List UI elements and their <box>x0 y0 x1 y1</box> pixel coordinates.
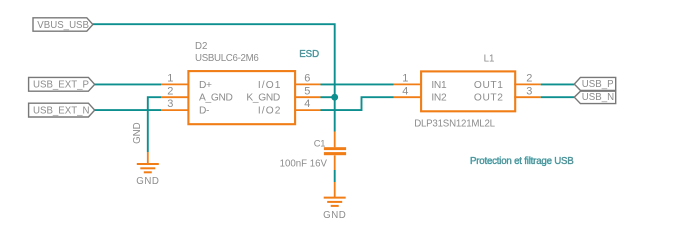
svg-text:C1: C1 <box>314 138 325 149</box>
wire USB_EXT_P to D2 pin 1 <box>95 83 161 85</box>
wire I/O1 to L1 IN1 <box>321 83 394 85</box>
D2 pin 1 (D+) <box>161 83 189 85</box>
svg-text:I/O2: I/O2 <box>258 105 282 116</box>
svg-text:DLP31SN121ML2L: DLP31SN121ML2L <box>414 119 495 130</box>
svg-text:VBUS_USB: VBUS_USB <box>37 20 89 31</box>
svg-text:K_GND: K_GND <box>246 93 280 104</box>
wire USB_EXT_N to D2 pin 3 <box>95 109 161 111</box>
ground symbol GND (bottom) <box>323 182 346 221</box>
IC D2 body <box>188 71 295 124</box>
svg-text:OUT2: OUT2 <box>474 93 504 104</box>
wire C1 to ground <box>334 170 336 182</box>
svg-text:D2: D2 <box>195 41 207 52</box>
svg-text:6: 6 <box>304 73 310 85</box>
svg-text:GND: GND <box>132 122 143 144</box>
wire K_GND to VBUS net <box>321 96 335 98</box>
L1 pin 2 (OUT1) <box>514 83 541 85</box>
svg-text:2: 2 <box>526 73 532 85</box>
svg-text:3: 3 <box>526 85 532 97</box>
D2 pin 2 (A_GND) <box>161 96 189 98</box>
svg-text:IN2: IN2 <box>431 93 447 104</box>
D2 pin 4 (I/O2) <box>295 109 321 111</box>
svg-text:USB_EXT_P: USB_EXT_P <box>33 80 89 91</box>
svg-text:IN1: IN1 <box>431 80 447 91</box>
svg-text:A_GND: A_GND <box>199 93 233 104</box>
wire OUT2 to USB_N <box>541 96 575 98</box>
junction on VBUS net <box>331 94 338 101</box>
D2 pin 5 (K_GND) <box>295 96 321 98</box>
ground symbol GND (left) <box>136 152 159 187</box>
D2 pin 6 (I/O1) <box>295 83 321 85</box>
wire I/O2 to L1 IN2 (stepped) <box>321 97 394 110</box>
L1 pin 3 (OUT2) <box>514 96 541 98</box>
svg-text:100nF 16V: 100nF 16V <box>280 158 328 169</box>
svg-text:USB_N: USB_N <box>582 92 614 103</box>
svg-text:5: 5 <box>304 85 310 97</box>
svg-text:GND: GND <box>323 210 346 221</box>
svg-text:4: 4 <box>402 85 408 97</box>
svg-text:1: 1 <box>167 73 173 85</box>
svg-text:USB_EXT_N: USB_EXT_N <box>33 105 90 116</box>
inductor/filter L1 body <box>421 71 515 111</box>
svg-text:I/O1: I/O1 <box>258 80 282 91</box>
svg-text:USBULC6-2M6: USBULC6-2M6 <box>195 53 258 64</box>
wire OUT1 to USB_P <box>541 83 575 85</box>
net label USB_N <box>574 91 615 103</box>
wire VBUS_USB net (horizontal + vertical down to C1) <box>93 24 335 131</box>
svg-text:1: 1 <box>402 73 408 85</box>
net label USB_P <box>574 77 615 90</box>
net label USB_EXT_N <box>29 103 95 117</box>
L1 pin 1 (IN1) <box>394 83 422 85</box>
svg-text:2: 2 <box>167 85 173 97</box>
D2 pin 3 (D-) <box>161 109 189 111</box>
L1 pin 4 (IN2) <box>394 96 422 98</box>
svg-text:D-: D- <box>199 105 209 116</box>
svg-text:3: 3 <box>167 98 173 110</box>
svg-text:USB_P: USB_P <box>582 79 614 90</box>
capacitor C1 <box>324 132 346 171</box>
net label USB_EXT_P <box>29 77 95 91</box>
svg-text:D+: D+ <box>199 80 212 91</box>
svg-text:Protection et filtrage USB: Protection et filtrage USB <box>470 156 574 167</box>
wire A_GND to ground <box>148 97 161 152</box>
svg-text:ESD: ESD <box>299 49 319 60</box>
svg-text:OUT1: OUT1 <box>474 80 504 91</box>
net label VBUS_USB <box>33 18 93 31</box>
svg-text:L1: L1 <box>484 54 495 65</box>
svg-text:4: 4 <box>304 98 310 110</box>
svg-text:GND: GND <box>136 176 159 187</box>
